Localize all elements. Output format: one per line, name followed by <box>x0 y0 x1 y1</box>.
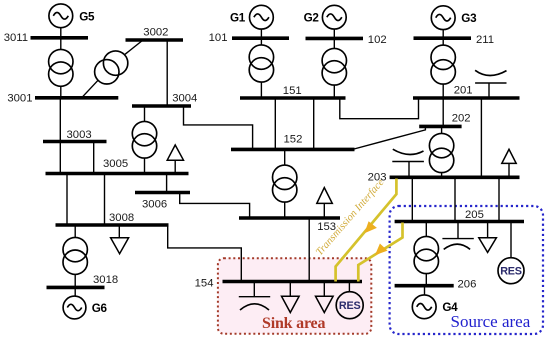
bus 205 <box>395 220 524 224</box>
shunt capacitor bus 205 <box>442 222 473 250</box>
svg-text:3006: 3006 <box>142 198 167 210</box>
wire bus 3005 to bus 3008 second <box>104 174 106 226</box>
wire transformer G2 to bus 151 <box>333 85 335 98</box>
wire bus 203 to bus 205 third <box>498 177 500 221</box>
RES unit bus 205 <box>498 258 524 284</box>
svg-text:203: 203 <box>368 172 387 184</box>
svg-text:G5: G5 <box>79 11 95 24</box>
bus 3006 <box>135 191 190 195</box>
interface arrow 1 <box>364 221 377 233</box>
wire bus 3001 to diagonal transformer <box>82 80 98 98</box>
wire bus 203 to bus 205 first <box>411 177 413 221</box>
transformer 202-203 <box>429 133 453 172</box>
svg-text:3002: 3002 <box>143 26 168 38</box>
wire bus 152 to transformer 153 <box>284 149 286 165</box>
svg-text:G6: G6 <box>92 302 108 315</box>
wire bus 153 to bus 154 <box>308 218 310 282</box>
bus 201 <box>413 96 520 100</box>
generator G4 <box>412 295 436 319</box>
wire bus 152 to bus 202 diagonal <box>354 126 425 149</box>
wire bus 154 to RES <box>348 282 350 292</box>
wire transformer to bus 151 <box>260 82 262 98</box>
wire bus 3005 to bus 3006 <box>166 174 168 193</box>
wire bus 3004 to transformer 3005 <box>144 106 146 121</box>
generator G1 <box>250 5 274 29</box>
svg-text:G3: G3 <box>461 12 477 25</box>
svg-text:153: 153 <box>317 221 336 233</box>
svg-text:3008: 3008 <box>109 212 134 224</box>
transformer 152-153 <box>273 165 297 202</box>
transmission interface line 203 to 154 <box>336 179 397 282</box>
wire bus 3005 to bus 3008 <box>66 174 68 226</box>
wire G5 to bus 3011 and transformer <box>60 28 62 50</box>
wire bus 3003 to bus 3005 <box>59 142 61 174</box>
wire transformer to bus 3018 <box>74 274 76 287</box>
bus 151 <box>240 96 346 100</box>
wire transformer to bus 3001 <box>60 86 62 98</box>
svg-text:154: 154 <box>195 277 214 289</box>
svg-text:151: 151 <box>283 85 302 97</box>
load arrow bus 154 second <box>316 282 334 313</box>
wire transformer to bus 203 <box>441 173 443 178</box>
wire bus 3008 to bus 154 <box>168 225 242 282</box>
svg-text:3004: 3004 <box>172 93 197 105</box>
shunt capacitor bus 154 <box>239 282 270 311</box>
transmission interface line 205 to 154 <box>358 223 402 282</box>
generator G6 <box>63 296 86 319</box>
bus 3004 <box>132 104 191 108</box>
wire bus 201 to bus 203 <box>480 98 482 177</box>
bus 3003 <box>43 140 107 144</box>
wire bus 205 to transformer 206 <box>425 222 427 237</box>
wire bus 151 to bus 201 <box>340 98 419 119</box>
bus 3008 <box>56 223 169 227</box>
transformer 211-201 <box>431 45 455 84</box>
bus 3001 <box>35 96 118 100</box>
transformer 102-151 <box>322 48 346 85</box>
shunt capacitor bus 203 <box>392 149 424 177</box>
generator G2 <box>322 5 346 29</box>
wire G2 to bus 102 <box>333 29 335 48</box>
wire bus 3006 to bus 153 <box>180 193 250 219</box>
source area box <box>390 206 543 334</box>
svg-text:202: 202 <box>452 112 471 124</box>
wire transformer G3 to bus 201 <box>442 84 444 98</box>
shunt reactor bus 153 <box>317 188 333 218</box>
svg-text:201: 201 <box>454 84 473 96</box>
wire bus 3018 to G6 <box>74 287 76 296</box>
wire bus 206 to G4 <box>424 286 426 295</box>
bus 154 <box>223 280 363 284</box>
svg-text:RES: RES <box>339 300 361 312</box>
RES unit bus 154 <box>336 292 363 319</box>
bus 3018 <box>47 286 105 290</box>
shunt reactor bus 3005 <box>167 145 183 174</box>
shunt reactor bus 203 <box>502 149 516 177</box>
bus 3011 <box>31 36 89 40</box>
svg-text:G1: G1 <box>230 12 246 25</box>
wire bus 205 to RES <box>510 222 512 258</box>
bus 152 <box>231 148 355 152</box>
transformer 205-206 <box>414 236 438 273</box>
generator G5 <box>49 4 73 28</box>
bus 153 <box>239 216 340 220</box>
transformer 3001-3002 diagonal <box>95 51 128 84</box>
svg-text:G2: G2 <box>304 12 320 25</box>
svg-text:205: 205 <box>465 209 484 221</box>
wire bus 151 to bus 152 second <box>313 98 315 149</box>
wire bus 202 to transformer 203 <box>441 126 443 133</box>
wire bus 203 to bus 205 second <box>454 177 456 221</box>
wire bus 3004 to bus 152 <box>184 106 253 149</box>
svg-text:Sink area: Sink area <box>262 315 325 332</box>
wire G1 to bus 101 <box>260 29 262 45</box>
bus 202 <box>419 125 461 129</box>
bus 211 <box>414 36 472 40</box>
bus 3005 <box>46 172 189 176</box>
svg-text:211: 211 <box>476 34 494 46</box>
svg-text:102: 102 <box>368 34 387 46</box>
wire bus 201 to bus 202 <box>442 98 444 126</box>
svg-text:Source area: Source area <box>451 312 531 331</box>
svg-text:RES: RES <box>500 266 522 278</box>
load arrow bus 154 first <box>282 282 300 313</box>
wire bus 3008 to transformer 3018 <box>74 225 76 237</box>
wire diagonal transformer to bus 3002 <box>124 40 143 55</box>
wire bus 3003 to bus 3005 second <box>93 142 95 174</box>
transformer 101-151 <box>249 45 273 82</box>
wire transformer to bus 3005 <box>144 158 146 173</box>
bus 3002 <box>126 38 184 42</box>
wire bus 3002 to bus 3004 <box>166 40 168 106</box>
svg-text:3001: 3001 <box>7 93 32 105</box>
load arrow bus 205 <box>479 222 497 253</box>
svg-text:3005: 3005 <box>103 158 128 170</box>
svg-text:206: 206 <box>458 279 477 291</box>
svg-text:3018: 3018 <box>93 274 118 286</box>
transformer 3008-3018 <box>63 237 87 274</box>
svg-text:152: 152 <box>284 134 303 146</box>
wire transformer to bus 206 <box>425 274 427 286</box>
sink area box <box>218 258 371 334</box>
svg-text:101: 101 <box>209 32 228 44</box>
shunt capacitor bus 201 <box>475 70 506 98</box>
bus 101 <box>232 36 289 40</box>
transformer 3004-3005 <box>132 121 156 158</box>
wire bus 151 to bus 152 first <box>274 98 276 149</box>
bus 206 <box>395 284 454 288</box>
svg-text:3011: 3011 <box>4 32 28 44</box>
transformer 3011-3001 <box>49 49 73 86</box>
generator G3 <box>431 6 455 30</box>
svg-text:3003: 3003 <box>67 129 92 141</box>
interface arrow 2 <box>375 244 388 256</box>
bus 102 <box>306 37 364 41</box>
load arrow bus 3008 <box>111 225 129 254</box>
wire G3 to bus 211 <box>442 30 444 45</box>
bus 203 <box>390 176 520 180</box>
wire bus 3001 to bus 3003 <box>59 98 61 142</box>
wire transformer to bus 153 <box>284 202 286 218</box>
